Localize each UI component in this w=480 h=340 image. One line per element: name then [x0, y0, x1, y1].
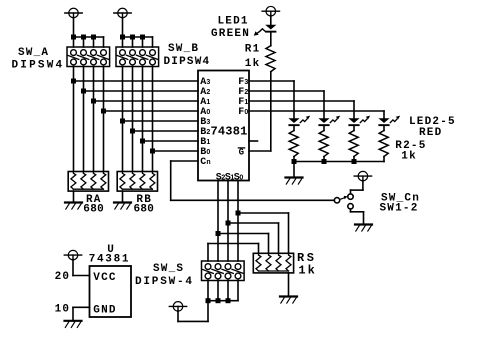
- wire: [152, 37, 154, 47]
- resistor R1: [266, 46, 275, 72]
- wire B0: [153, 150, 199, 152]
- svg-text:SW_A: SW_A: [18, 47, 49, 59]
- wire: [350, 209, 352, 212]
- svg-text:GREEN: GREEN: [211, 28, 250, 40]
- wire R5 to rail: [383, 157, 385, 162]
- svg-text:R1: R1: [245, 44, 261, 56]
- wire LED rail: [294, 161, 384, 163]
- wire: [83, 37, 85, 47]
- wire SW_A col3 to RA: [93, 67, 95, 172]
- wire B1: [143, 140, 199, 142]
- svg-text:1k: 1k: [245, 58, 261, 70]
- wire: [74, 36, 104, 38]
- junction: [206, 298, 211, 303]
- svg-text:1k: 1k: [298, 264, 316, 278]
- wire LED4 to R4: [353, 126, 355, 131]
- G pin overline: [238, 147, 244, 149]
- svg-text:DIPSW4: DIPSW4: [164, 56, 211, 68]
- LED5: [378, 118, 389, 126]
- junction A3: [71, 79, 76, 84]
- resistor R2: [289, 131, 298, 157]
- svg-text:20: 20: [55, 271, 71, 283]
- power symbol VCC (U): [64, 250, 81, 260]
- wire Cn to switch: [171, 199, 335, 201]
- wire RA to ground: [73, 191, 75, 202]
- wire SW_S col2 down: [217, 281, 219, 301]
- wire: [73, 17, 75, 37]
- svg-text:SW1-2: SW1-2: [380, 203, 419, 215]
- wire: [351, 189, 363, 191]
- svg-text:SW_S: SW_S: [153, 263, 184, 275]
- junction S2: [216, 231, 221, 236]
- wire pin 10: [73, 306, 90, 308]
- svg-text:74381: 74381: [89, 253, 131, 265]
- wire F0 down: [383, 111, 385, 118]
- wire: [258, 244, 260, 254]
- wire: [288, 213, 290, 253]
- power symbol VCC (SW_Cn): [354, 171, 371, 181]
- junction: [81, 35, 86, 40]
- switch SW_Cn top contact: [348, 194, 353, 199]
- junction S0: [236, 211, 241, 216]
- wire: [177, 311, 179, 322]
- power symbol VCC (above SW_B): [114, 8, 131, 18]
- junction A1: [91, 99, 96, 104]
- wire Cn left: [171, 160, 198, 162]
- ground RS: [280, 297, 297, 304]
- svg-text:10: 10: [55, 303, 71, 315]
- junction rail 1: [292, 159, 297, 164]
- wire: [350, 190, 352, 194]
- wire S2 to RS: [218, 233, 269, 235]
- wire: [268, 234, 270, 254]
- wire SW_B col4 to RB: [152, 67, 154, 172]
- LED1: [265, 25, 276, 33]
- wire: [122, 17, 124, 37]
- wire S0: [237, 181, 239, 262]
- junction B2: [130, 129, 135, 134]
- power symbol VCC (above SW_A): [65, 8, 82, 18]
- LED4: [348, 118, 359, 126]
- junction A0: [101, 109, 106, 114]
- pin stub unlabeled: [249, 140, 258, 142]
- wire Cn down: [170, 161, 172, 200]
- power block U rectangle: [90, 266, 132, 317]
- wire F1: [249, 100, 354, 102]
- wire B3: [123, 120, 199, 122]
- wire S1 to RS: [228, 222, 279, 224]
- junction: [130, 35, 135, 40]
- wire A0: [104, 110, 199, 112]
- wire SW_S col4 down: [237, 281, 239, 301]
- svg-text:G: G: [239, 148, 244, 158]
- wire RS to ground: [288, 273, 290, 297]
- junction rail 2: [322, 159, 327, 164]
- wire: [123, 36, 153, 38]
- wire R1 down: [270, 72, 272, 151]
- switch SW_Cn bottom contact: [348, 204, 353, 209]
- svg-text:RED: RED: [419, 127, 442, 139]
- wire LED1 to R1: [270, 33, 272, 46]
- wire F2: [249, 90, 324, 92]
- wire: [142, 37, 144, 47]
- wire: [72, 307, 74, 321]
- wire: [207, 244, 209, 262]
- wire S1: [227, 181, 229, 262]
- wire: [278, 223, 280, 253]
- junction: [216, 298, 221, 303]
- junction B1: [140, 139, 145, 144]
- svg-text:680: 680: [83, 204, 104, 216]
- wire rail to ground: [293, 162, 295, 178]
- resistor R5: [379, 131, 388, 157]
- wire F0: [249, 110, 384, 112]
- wire: [132, 37, 134, 47]
- LED3: [318, 118, 329, 126]
- resistor network RA: [68, 172, 108, 192]
- wire LED2 to R2: [293, 126, 295, 131]
- wire: [93, 37, 95, 47]
- wire SW_S col1 down: [207, 281, 209, 301]
- wire SW_B col3 to RB: [142, 67, 144, 172]
- ground LED rail: [286, 178, 303, 185]
- wire: [363, 212, 365, 225]
- svg-text:1k: 1k: [401, 151, 417, 163]
- ground RA: [65, 203, 82, 210]
- svg-text:LED1: LED1: [218, 16, 249, 28]
- wire F3: [249, 80, 294, 82]
- junction A2: [81, 89, 86, 94]
- wire A1: [94, 100, 199, 102]
- svg-text:74381: 74381: [211, 125, 248, 139]
- ground U: [65, 321, 82, 328]
- wire A3: [74, 80, 199, 82]
- power symbol VCC (LED1): [262, 6, 279, 16]
- wire: [270, 16, 272, 25]
- wire: [72, 260, 74, 276]
- junction: [91, 35, 96, 40]
- wire: [178, 320, 208, 322]
- junction B0: [150, 149, 155, 154]
- wire: [207, 301, 209, 322]
- junction rail 3: [352, 159, 357, 164]
- wire SW_S bottom row: [208, 300, 238, 302]
- resistor network RS: [253, 253, 293, 273]
- wire B2: [133, 130, 199, 132]
- wire SW_S col1 to RS: [208, 243, 259, 245]
- wire A2: [84, 90, 199, 92]
- wire pin 20: [73, 275, 90, 277]
- junction: [226, 298, 231, 303]
- wire: [351, 211, 364, 213]
- op IC U 74381 body: [198, 71, 249, 181]
- DIP switch SW_S: [202, 261, 245, 281]
- junction: [140, 35, 145, 40]
- svg-text:DIPSW-4: DIPSW-4: [135, 276, 194, 288]
- wire S2: [217, 181, 219, 262]
- wire F2 down: [323, 91, 325, 118]
- junction: [120, 35, 125, 40]
- wire: [73, 37, 75, 47]
- ground SW_Cn: [355, 225, 372, 232]
- svg-text:DIPSW4: DIPSW4: [12, 59, 65, 71]
- wire to G pin: [249, 150, 271, 152]
- svg-text:VCC: VCC: [93, 272, 116, 284]
- wire: [103, 37, 105, 47]
- svg-text:GND: GND: [93, 304, 116, 316]
- switch SW_Cn common contact: [334, 198, 339, 203]
- wire SW_B col1 to RB: [122, 67, 124, 172]
- wire: [122, 37, 124, 47]
- wire SW_A col4 to RA: [103, 67, 105, 172]
- wire F3 down: [293, 81, 295, 118]
- wire R4 to rail: [353, 157, 355, 162]
- junction S1: [226, 221, 231, 226]
- wire LED3 to R3: [323, 126, 325, 131]
- resistor R3: [319, 131, 328, 157]
- ground RB: [114, 203, 131, 210]
- junction: [71, 35, 76, 40]
- resistor network RB: [117, 172, 157, 192]
- junction B3: [120, 119, 125, 124]
- svg-text:SW_B: SW_B: [168, 43, 199, 55]
- switch arm: [340, 198, 345, 200]
- DIP switch SW_A: [67, 47, 110, 67]
- wire F1 down: [353, 101, 355, 118]
- wire SW_B col2 to RB: [132, 67, 134, 172]
- wire SW_A col2 to RA: [83, 67, 85, 172]
- svg-text:680: 680: [134, 204, 155, 216]
- wire R3 to rail: [323, 157, 325, 162]
- wire R2 to rail: [293, 157, 295, 162]
- wire RB to ground: [122, 191, 124, 202]
- resistor R4: [349, 131, 358, 157]
- power symbol VCC (SW_S): [169, 302, 186, 312]
- wire SW_A col1 to RA: [73, 67, 75, 172]
- DIP switch SW_B: [116, 47, 159, 67]
- wire SW_S col3 down: [227, 281, 229, 301]
- wire S0 to RS: [238, 212, 289, 214]
- wire: [362, 181, 364, 191]
- wire LED5 to R5: [383, 126, 385, 131]
- LED2: [288, 118, 299, 126]
